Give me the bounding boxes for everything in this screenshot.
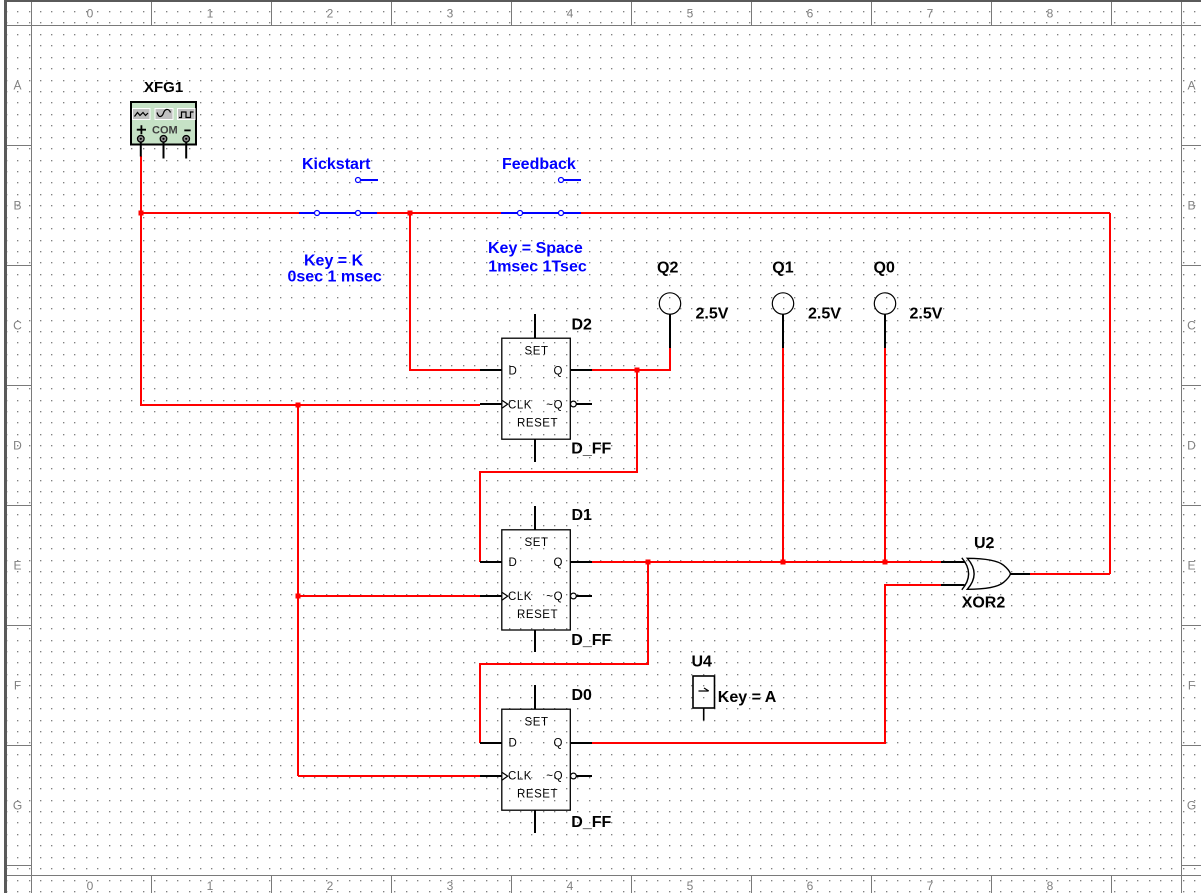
wire: D1 Q down to D0 data input xyxy=(480,562,648,743)
svg-text:A: A xyxy=(13,79,21,93)
svg-text:Kickstart: Kickstart xyxy=(302,156,371,173)
Kickstart switch contacts xyxy=(315,211,320,216)
function generator XFG1 xyxy=(131,102,196,159)
svg-text:C: C xyxy=(1187,319,1196,333)
svg-text:XOR2: XOR2 xyxy=(962,595,1006,612)
wire: D0 Q up to XOR input B xyxy=(592,585,941,743)
D1 clock wedge xyxy=(502,592,508,600)
svg-text:~Q: ~Q xyxy=(546,771,563,783)
U4 body xyxy=(693,676,715,708)
U4 arrow symbol xyxy=(699,688,709,691)
svg-text:2.5V: 2.5V xyxy=(808,306,841,323)
wire: between Kickstart and Feedback xyxy=(377,212,501,214)
svg-text:D: D xyxy=(509,738,518,750)
svg-text:5: 5 xyxy=(687,7,694,21)
svg-text:7: 7 xyxy=(927,7,934,21)
svg-text:CLK: CLK xyxy=(508,771,532,783)
XFG1 sine wave icon xyxy=(157,109,171,116)
svg-text:RESET: RESET xyxy=(517,609,558,621)
XFG1 terminals xyxy=(138,136,190,143)
U2 input and output pins xyxy=(941,562,1030,585)
svg-text:U4: U4 xyxy=(692,654,713,671)
svg-text:1: 1 xyxy=(207,7,214,21)
svg-text:Q: Q xyxy=(554,366,564,378)
flip-flop D2 xyxy=(480,314,592,462)
svg-text:Q1: Q1 xyxy=(772,260,793,277)
svg-text:CLK: CLK xyxy=(508,591,532,603)
svg-text:7: 7 xyxy=(927,879,934,893)
D2 ~Q bubble xyxy=(571,401,577,407)
flip-flop D1 xyxy=(480,506,592,652)
D2 clock wedge xyxy=(502,400,508,408)
XFG1 minus terminal label xyxy=(184,129,190,131)
svg-text:0: 0 xyxy=(87,7,94,21)
svg-text:2.5V: 2.5V xyxy=(696,306,729,323)
D0 ~Q bubble xyxy=(571,773,577,779)
junction probe Q1 tap xyxy=(781,560,786,565)
wire: feedback return rail top xyxy=(581,212,1110,214)
svg-text:G: G xyxy=(1187,799,1196,813)
probe Q2 pin xyxy=(669,315,671,349)
svg-text:Key = K: Key = K xyxy=(304,253,364,270)
right ruler division ticks xyxy=(1182,146,1201,866)
svg-text:~Q: ~Q xyxy=(546,400,563,412)
XFG1 plus terminal label xyxy=(137,125,146,134)
probe Q0 xyxy=(874,293,895,348)
D1 ~Q bubble xyxy=(571,593,577,599)
XFG1 waveform buttons xyxy=(133,109,151,120)
svg-text:Q0: Q0 xyxy=(874,260,895,277)
U4 pin xyxy=(703,708,705,721)
svg-text:B: B xyxy=(13,199,21,213)
Kickstart switch open arm xyxy=(361,179,378,181)
right ruler letters xyxy=(1187,79,1196,813)
svg-text:G: G xyxy=(13,799,22,813)
top ruler bottom line xyxy=(7,25,1201,27)
svg-text:F: F xyxy=(14,679,21,693)
wire: clock branch to D0 xyxy=(298,775,480,777)
probe Q0 pin xyxy=(884,315,886,349)
wire: probe Q0 drop xyxy=(884,348,886,562)
D1 pins SET D CLK Q RESET xyxy=(480,506,592,652)
XFG1 square wave icon xyxy=(179,112,194,118)
wire: D1 Q row to XOR input A xyxy=(592,561,941,563)
left ruler division ticks xyxy=(7,146,31,866)
junction clock bus at D1 CLK xyxy=(296,594,301,599)
svg-text:3: 3 xyxy=(447,7,454,21)
wire: clock branch to D1 xyxy=(298,595,480,597)
D0 body xyxy=(502,709,571,810)
svg-text:2: 2 xyxy=(327,7,334,21)
D0 clock wedge xyxy=(502,772,508,780)
svg-text:D_FF: D_FF xyxy=(571,814,611,831)
svg-text:D_FF: D_FF xyxy=(571,441,611,458)
junction D1 Q branch xyxy=(646,560,651,565)
svg-text:RESET: RESET xyxy=(517,418,558,430)
D2 body xyxy=(502,338,571,439)
Feedback switch contacts xyxy=(518,211,523,216)
junction on bus above D2 data xyxy=(408,211,413,216)
svg-text:E: E xyxy=(13,559,21,573)
junction D2 Q branch xyxy=(635,368,640,373)
svg-text:A: A xyxy=(1187,79,1195,93)
svg-text:2: 2 xyxy=(327,879,334,893)
flip-flop D0 xyxy=(480,685,592,833)
wire: probe Q1 drop xyxy=(782,348,784,562)
svg-text:3: 3 xyxy=(447,879,454,893)
svg-text:8: 8 xyxy=(1047,7,1054,21)
svg-text:D: D xyxy=(13,439,22,453)
junction clock bus at D2 CLK xyxy=(296,403,301,408)
wire: D2 Q to probe Q2 corner xyxy=(592,348,670,370)
XFG1 triangle wave icon xyxy=(135,113,149,117)
switch J2 Feedback xyxy=(501,180,581,213)
bottom ruler numbers xyxy=(87,879,1054,893)
svg-text:~Q: ~Q xyxy=(546,591,563,603)
svg-text:D0: D0 xyxy=(572,687,593,704)
left ruler letters xyxy=(13,79,22,813)
svg-text:SET: SET xyxy=(525,346,549,358)
svg-text:D_FF: D_FF xyxy=(571,632,611,649)
Feedback switch open arm xyxy=(564,179,581,181)
dark left bar xyxy=(4,0,7,893)
dark top border xyxy=(4,0,1201,2)
svg-text:F: F xyxy=(1188,679,1195,693)
svg-text:COM: COM xyxy=(152,125,178,137)
junction probe Q0 tap xyxy=(883,560,888,565)
wire: XOR output to vertical xyxy=(1030,573,1110,575)
svg-text:5: 5 xyxy=(687,879,694,893)
svg-text:B: B xyxy=(1187,199,1195,213)
interactive constant U4 xyxy=(693,676,715,721)
D1 body xyxy=(502,530,571,630)
svg-text:CLK: CLK xyxy=(508,400,532,412)
svg-text:Q: Q xyxy=(554,557,564,569)
svg-text:SET: SET xyxy=(525,717,549,729)
svg-text:Q2: Q2 xyxy=(657,260,678,277)
top ruler division ticks xyxy=(152,2,1112,25)
probe Q1 xyxy=(772,293,793,348)
wire: XFG1 plus output down to bus xyxy=(140,156,142,213)
svg-text:6: 6 xyxy=(807,879,814,893)
svg-text:Key = Space: Key = Space xyxy=(488,240,583,257)
D2 pins SET D CLK Q RESET xyxy=(480,314,592,462)
U2 xor input arc xyxy=(962,558,969,590)
wire: clock feed down from bus xyxy=(141,213,480,405)
switch J1 Kickstart xyxy=(299,180,378,213)
XFG1 pins + COM - xyxy=(141,142,186,158)
U2 xor gate body xyxy=(967,558,1010,589)
svg-text:D2: D2 xyxy=(572,317,593,334)
bottom ruler top line xyxy=(7,875,1201,877)
probe Q2 xyxy=(659,293,680,348)
wire: bus down to D2 data input xyxy=(410,213,480,370)
wire: feedback return vertical right side xyxy=(1109,213,1111,574)
svg-text:Key = A: Key = A xyxy=(718,689,777,706)
probe Q1 bulb xyxy=(772,293,793,314)
svg-text:Q: Q xyxy=(554,738,564,750)
right ruler inner line xyxy=(1181,2,1183,893)
left ruler inner line xyxy=(31,2,33,893)
svg-text:8: 8 xyxy=(1047,879,1054,893)
svg-text:Feedback: Feedback xyxy=(502,156,576,173)
top ruler numbers xyxy=(87,7,1054,21)
wire: D2 Q down to D1 data input xyxy=(480,370,637,562)
svg-text:D: D xyxy=(509,557,518,569)
probe Q0 bulb xyxy=(874,293,895,314)
svg-text:4: 4 xyxy=(567,7,574,21)
XFG1 body xyxy=(131,102,196,145)
svg-text:RESET: RESET xyxy=(517,789,558,801)
probe Q1 pin xyxy=(782,315,784,349)
wire: main bus from XFG1 to Kickstart xyxy=(141,212,299,214)
svg-text:6: 6 xyxy=(807,7,814,21)
wire: clock bus vertical xyxy=(297,405,299,776)
bottom ruler division ticks xyxy=(152,876,1112,893)
Kickstart switch base line xyxy=(299,212,377,214)
svg-text:4: 4 xyxy=(567,879,574,893)
Feedback switch base line xyxy=(501,212,581,214)
svg-text:U2: U2 xyxy=(974,535,995,552)
svg-text:D: D xyxy=(509,366,518,378)
svg-text:0sec 1 msec: 0sec 1 msec xyxy=(288,269,382,286)
svg-text:D: D xyxy=(1187,439,1196,453)
svg-text:C: C xyxy=(13,319,22,333)
svg-text:1: 1 xyxy=(207,879,214,893)
svg-text:2.5V: 2.5V xyxy=(910,306,943,323)
svg-text:1msec 1Tsec: 1msec 1Tsec xyxy=(488,259,587,276)
svg-text:SET: SET xyxy=(525,537,549,549)
svg-text:XFG1: XFG1 xyxy=(144,79,183,96)
svg-text:E: E xyxy=(1187,559,1195,573)
probe Q2 bulb xyxy=(659,293,680,314)
junction at XFG output on bus xyxy=(139,211,144,216)
svg-text:D1: D1 xyxy=(572,507,593,524)
xor gate U2 xyxy=(941,558,1030,590)
D0 pins SET D CLK Q RESET xyxy=(480,685,592,833)
svg-text:0: 0 xyxy=(87,879,94,893)
